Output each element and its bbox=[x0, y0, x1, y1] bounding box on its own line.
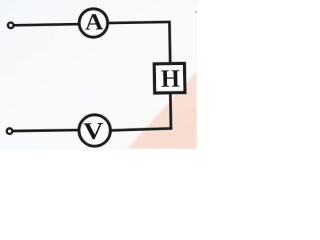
terminal (top-left open circle) bbox=[8, 22, 14, 28]
terminal (bottom-left open circle) bbox=[7, 128, 13, 134]
wire terminal to ammeter bbox=[14, 24, 79, 25]
wire top-right corner down to heater bbox=[168, 21, 171, 64]
wire bottom-right corner to voltmeter bbox=[111, 128, 172, 130]
wire voltmeter to bottom-left terminal bbox=[12, 130, 79, 131]
heater H box bbox=[154, 63, 185, 93]
svg-text:V: V bbox=[83, 118, 104, 145]
wire heater down to bottom-right corner bbox=[169, 93, 172, 128]
pink page background wedge bottom-right bbox=[127, 71, 197, 149]
svg-text:H: H bbox=[161, 65, 181, 93]
wire ammeter to top-right corner bbox=[108, 22, 169, 23]
ammeter A1 circle bbox=[79, 9, 108, 38]
svg-text:A: A bbox=[85, 9, 104, 35]
voltmeter V1 circle bbox=[79, 115, 111, 147]
pink page sliver top-right corner bbox=[195, 0, 197, 5]
stray ink speck right edge bbox=[195, 11, 197, 13]
